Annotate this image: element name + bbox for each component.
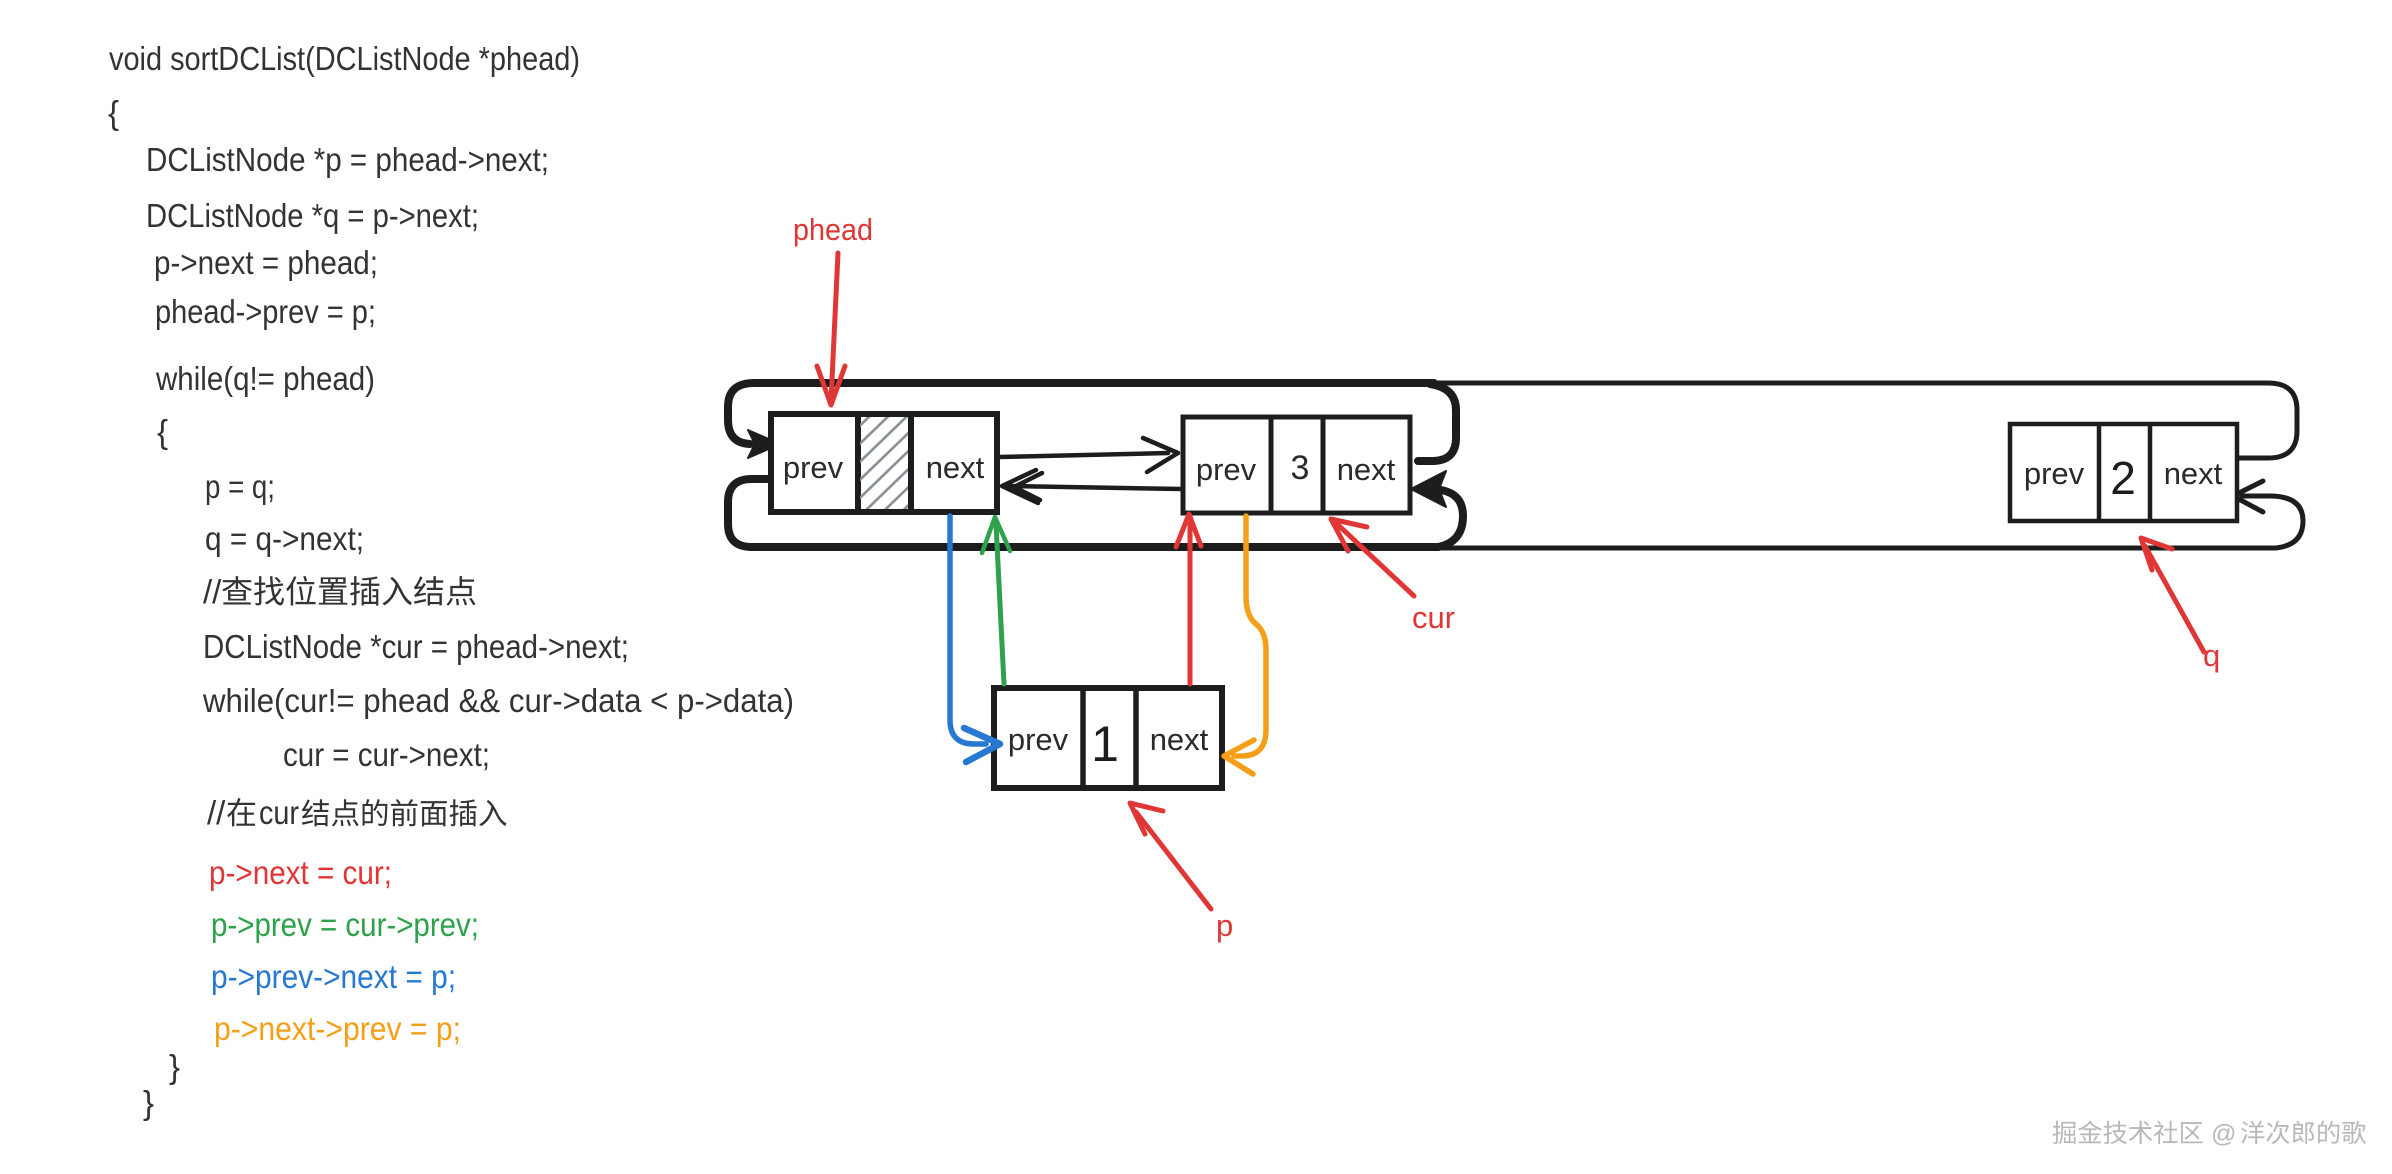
svg-text:3: 3 [1291,449,1310,487]
svg-text://: // [203,573,222,610]
svg-text:p: p [1216,908,1233,943]
svg-text:p = q;: p = q; [205,468,275,505]
arrowhead of cur arrow [1331,519,1367,551]
svg-text:cur = cur->next;: cur = cur->next; [283,736,490,773]
svg-text:1: 1 [1091,716,1119,772]
node 1 (prev | 1 | next) [994,688,1222,788]
hatched data cell of head node [860,417,908,509]
svg-text:p->next = phead;: p->next = phead; [154,244,378,281]
svg-text:p->prev = cur->prev;: p->prev = cur->prev; [211,906,479,943]
svg-text:p->next->prev = p;: p->next->prev = p; [214,1010,461,1047]
arrowhead orange into node 1 next [1224,740,1254,774]
svg-text:phead->prev = p;: phead->prev = p; [155,293,376,330]
svg-text:DCListNode *q = p->next;: DCListNode *q = p->next; [146,197,479,234]
svg-text:@: @ [2211,1120,2236,1148]
svg-text:prev: prev [2024,456,2085,491]
svg-text:next: next [1150,722,1209,757]
svg-text:2: 2 [2110,452,2136,504]
svg-text:DCListNode *cur = phead->next;: DCListNode *cur = phead->next; [203,628,629,665]
svg-text:q: q [2203,638,2220,673]
svg-text:DCListNode *p = phead->next;: DCListNode *p = phead->next; [146,141,549,178]
arrowhead green into head [982,517,1010,553]
wire: thick top-right hook into node 3 [1418,384,1456,461]
svg-text:next: next [926,450,985,485]
svg-text:p->next = cur;: p->next = cur; [209,854,392,891]
svg-text:prev: prev [1008,722,1069,757]
svg-text:prev: prev [1196,452,1257,487]
svg-text:}: } [169,1048,180,1085]
svg-text://: // [207,794,226,831]
arrowhead into head next [1002,470,1038,503]
arrow p pointing to node 1 bottom [1136,812,1211,909]
node 2 (prev | 2 | next) [2010,424,2237,521]
arrowhead of q arrow [2141,538,2172,570]
svg-text:q = q->next;: q = q->next; [205,520,364,557]
watermark: juejin community credit (CJK, light gray) [2053,1121,2076,1144]
wire: bottom rail to node 2 [1438,496,2303,548]
arrowhead into head prev (thick) [748,430,780,458]
node 3 (prev | 3 | next) [1183,417,1410,513]
svg-text:p->prev->next = p;: p->prev->next = p; [211,958,456,995]
arrowhead into node 2 next (from bottom rail) [2233,481,2263,512]
wire: thick bottom-right hook with arrow into node 3 next [1438,490,1463,547]
svg-text:next: next [1337,452,1396,487]
svg-text:{: { [108,94,119,131]
svg-text:next: next [2164,456,2223,491]
arrowhead into node 3 next (thick) [1411,471,1446,507]
arrow blue: p->prev->next = p (head next cell down to node 1 prev) [950,516,986,744]
arrow phead down to head node [831,253,838,401]
arrow orange: p->next->prev = p (node 3 down to node 1 next) [1234,516,1266,756]
svg-text:phead: phead [793,212,873,247]
svg-text:prev: prev [783,450,844,485]
arrow cur pointing to node 3 bottom [1336,523,1414,596]
arrow green: p->prev = cur->prev (node 1 prev up to head) [996,524,1004,684]
arrowhead into node 3 prev [1143,438,1178,472]
node: head (prev | hatched | next) [771,414,997,512]
arrowhead second stroke [1014,473,1042,500]
svg-text:{: { [157,413,168,450]
wire: thick top rail over head and node 3 [728,383,1434,444]
arrowhead of p arrow [1130,803,1163,834]
svg-text:while(cur!= phead && cur->data: while(cur!= phead && cur->data < p->data… [202,682,794,719]
wire: thick bottom-left hook from head prev [728,479,1438,547]
arrow: node 3.prev to head [1008,486,1182,489]
arrow red: p->next = cur (node 1 next up to node 3 prev) [1188,524,1193,684]
arrowhead of phead arrow [817,366,845,405]
svg-text:void sortDCList(DCListNode *ph: void sortDCList(DCListNode *phead) [109,40,580,77]
wire: circular list top rail [756,383,2297,458]
arrow q pointing to node 2 bottom [2145,546,2204,652]
arrow: head.next to node 3 [999,453,1168,457]
arrowhead blue into node 1 prev [964,728,1000,762]
svg-text:while(q!= phead): while(q!= phead) [155,360,375,397]
arrowhead red into node 3 prev [1176,514,1201,547]
svg-text:}: } [143,1084,154,1121]
svg-text:cur: cur [1412,600,1455,635]
svg-text:cur: cur [259,794,299,831]
